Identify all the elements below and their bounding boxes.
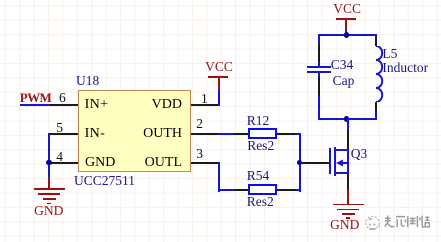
resistor R12 — [234, 133, 248, 135]
designator U18 — [76, 73, 99, 89]
resistor R54 — [234, 189, 248, 191]
ground GND right — [347, 189, 349, 204]
transistor Q3 — [301, 162, 329, 164]
wire VCC stem to rail — [345, 30, 347, 37]
junction dot pin4 — [46, 160, 51, 165]
wire R54 to gate node — [296, 189, 301, 191]
wire R12 to gate node — [296, 133, 301, 135]
power VCC at tank — [333, 1, 361, 17]
pin 5 IN- — [50, 133, 78, 135]
junction dot gate node — [297, 160, 302, 165]
pin 1 VDD — [191, 104, 219, 106]
wire tank to drain — [347, 118, 349, 130]
value UCC27511 — [74, 173, 135, 189]
ground GND left — [48, 177, 50, 189]
power VCC at pin1 — [205, 59, 233, 75]
wire VCC to pin1 — [218, 90, 220, 106]
wire PWM net — [20, 104, 52, 106]
watermark text — [384, 215, 430, 228]
junction dot tank bottom — [344, 116, 349, 121]
wire tank top rail — [318, 34, 377, 36]
inductor L5 — [375, 34, 377, 38]
net label PWM — [20, 90, 51, 106]
pin 3 OUTL — [191, 162, 219, 164]
wire pin3 down and to R54 — [218, 162, 220, 192]
pin 2 OUTH — [191, 133, 219, 135]
wire pin2 to R12 — [218, 133, 234, 135]
ic U18 body — [78, 90, 192, 172]
wire left vertical pin5 to ground — [48, 133, 50, 178]
wire tank bottom rail — [318, 118, 377, 120]
pin 6 IN+ — [50, 104, 78, 106]
capacitor C34 — [318, 34, 320, 44]
pin 4 GND — [50, 162, 78, 164]
watermark logo — [365, 215, 381, 231]
junction dot tank top — [344, 32, 349, 37]
